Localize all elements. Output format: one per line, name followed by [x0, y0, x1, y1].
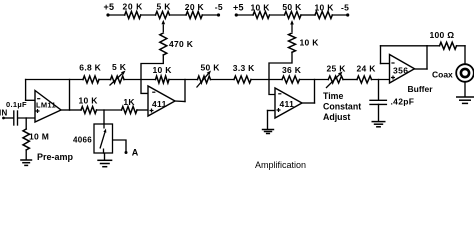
svg-text:20 K: 20 K — [185, 2, 205, 12]
svg-text:Amplification: Amplification — [255, 160, 306, 170]
svg-text:Time: Time — [323, 91, 343, 101]
svg-text:0.1µF: 0.1µF — [6, 100, 27, 109]
svg-text:24 K: 24 K — [357, 64, 377, 74]
svg-text:411: 411 — [280, 99, 295, 109]
svg-text:25 K: 25 K — [327, 64, 347, 74]
svg-text:100 Ω: 100 Ω — [430, 30, 455, 40]
svg-text:IN: IN — [0, 109, 8, 118]
svg-text:50 K: 50 K — [201, 63, 221, 73]
svg-text:10 M: 10 M — [29, 132, 49, 142]
svg-text:5 K: 5 K — [157, 2, 172, 12]
svg-text:Buffer: Buffer — [408, 84, 434, 94]
svg-text:470 K: 470 K — [169, 39, 194, 49]
svg-text:20 K: 20 K — [123, 2, 144, 12]
svg-text:-5: -5 — [215, 2, 223, 12]
svg-text:Pre-amp: Pre-amp — [37, 152, 74, 162]
svg-text:3.3 K: 3.3 K — [233, 63, 255, 73]
svg-text:6.8 K: 6.8 K — [79, 63, 101, 73]
svg-text:50 K: 50 K — [282, 2, 302, 12]
svg-text:4066: 4066 — [73, 136, 92, 145]
svg-text:356: 356 — [393, 66, 408, 76]
svg-text:A: A — [132, 148, 139, 158]
svg-text:36 K: 36 K — [282, 65, 302, 75]
svg-text:1K: 1K — [123, 97, 135, 107]
svg-text:Adjust: Adjust — [323, 112, 350, 122]
svg-text:Constant: Constant — [323, 102, 361, 112]
svg-text:+5: +5 — [104, 2, 115, 12]
svg-text:+5: +5 — [233, 3, 244, 13]
svg-text:10 K: 10 K — [153, 65, 173, 75]
svg-text:LM11: LM11 — [36, 101, 56, 110]
svg-text:.42pF: .42pF — [391, 97, 415, 107]
svg-text:10 K: 10 K — [79, 96, 99, 106]
svg-text:10 K: 10 K — [300, 38, 320, 48]
svg-text:-5: -5 — [341, 3, 349, 13]
svg-text:5 K: 5 K — [112, 62, 127, 72]
svg-text:10 K: 10 K — [315, 3, 335, 13]
svg-text:Coax: Coax — [432, 70, 453, 80]
svg-text:10 K: 10 K — [251, 3, 271, 13]
svg-text:411: 411 — [152, 99, 167, 109]
